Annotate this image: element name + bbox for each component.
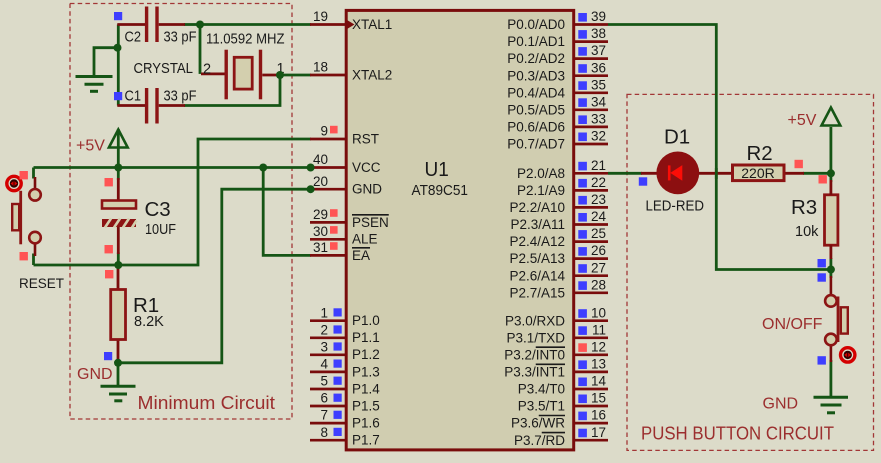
svg-text:P1.0: P1.0	[352, 313, 380, 328]
pin 39 (P0.0/AD0) right side	[507, 9, 608, 32]
+5V power symbol (left, reset circuit)	[109, 130, 128, 148]
svg-text:14: 14	[591, 374, 607, 389]
junction: R2 / R3 / +5V	[827, 169, 835, 177]
svg-text:24: 24	[591, 209, 607, 224]
wire +5V rail down to C3 top lead	[117, 168, 120, 181]
svg-text:GND: GND	[763, 396, 799, 413]
svg-text:P2.1/A9: P2.1/A9	[517, 183, 565, 198]
svg-text:P3.5/T1: P3.5/T1	[518, 399, 565, 414]
svg-text:U1: U1	[425, 158, 449, 181]
svg-text:33 pF: 33 pF	[164, 89, 197, 105]
junction: +5V rail / C3	[114, 164, 122, 172]
op-amp U1 AT89C51 microcontroller body	[346, 10, 574, 450]
svg-text:P1.4: P1.4	[352, 381, 380, 396]
svg-text:25: 25	[591, 226, 606, 241]
svg-text:P3.6/WR: P3.6/WR	[511, 416, 565, 431]
svg-text:P2.7/A15: P2.7/A15	[509, 285, 565, 300]
svg-text:GND: GND	[77, 366, 113, 383]
pin 22 (P2.1/A9) right side	[517, 175, 608, 198]
svg-text:GND: GND	[352, 182, 382, 197]
resistor R2 220R	[733, 142, 805, 181]
logic state marker R1 bottom	[104, 352, 112, 360]
pin 10 (P3.0/RXD) right side	[505, 305, 608, 328]
svg-text:9: 9	[320, 124, 328, 139]
capacitor C2 33pF	[117, 7, 196, 46]
svg-text:19: 19	[313, 9, 328, 24]
svg-text:40: 40	[313, 152, 328, 167]
svg-text:13: 13	[591, 357, 606, 372]
logic state markers near push button node	[818, 259, 826, 267]
ground symbol (push button circuit) with GND label	[814, 397, 849, 413]
svg-text:P2.6/A14: P2.6/A14	[509, 268, 565, 283]
pin 32 (P0.7/AD7) right side	[507, 129, 608, 152]
svg-text:15: 15	[591, 391, 606, 406]
svg-text:P2.2/A10: P2.2/A10	[509, 200, 565, 215]
svg-text:18: 18	[313, 60, 328, 75]
junction: C2 / crystal / XTAL1	[196, 21, 204, 29]
svg-text:27: 27	[591, 260, 606, 275]
junction at GND pin 20	[307, 185, 315, 193]
svg-text:P1.3: P1.3	[352, 364, 380, 379]
wire C3 bottom lead to reset rail	[117, 253, 120, 266]
wire +5V symbol stem (right)	[830, 127, 833, 173]
pin 11 (P3.1/TXD) right side	[506, 322, 608, 345]
wire XTAL1 net vertical to crystal pin 2	[199, 25, 202, 74]
pin 17 (P3.7/RD) right side	[514, 425, 608, 448]
wire XTAL2 net: crystal pin 1 to pin 18	[280, 74, 311, 77]
svg-text:P0.5/AD5: P0.5/AD5	[507, 102, 565, 117]
wire XTAL1 net: C2/crystal junction to pin 19	[200, 23, 311, 26]
wire crossing: pin39 vertical over LED lead	[715, 168, 718, 179]
svg-text:R3: R3	[791, 196, 817, 219]
logic state markers near C3	[105, 178, 113, 186]
pin 35 (P0.4/AD4) right side	[507, 77, 608, 100]
svg-text:30: 30	[313, 224, 328, 239]
pin 26 (P2.5/A13) right side	[509, 243, 608, 266]
pin 2 (P1.1) left side	[310, 322, 380, 345]
svg-text:34: 34	[591, 94, 607, 109]
svg-text:26: 26	[591, 243, 606, 258]
svg-text:ON/OFF: ON/OFF	[762, 316, 823, 333]
capacitor C1 33pF	[117, 88, 196, 124]
pin 16 (P3.6/WR) right side	[511, 408, 608, 431]
RESET button actuator marker	[7, 176, 21, 190]
junction: VCC rail / EA branch	[259, 164, 267, 172]
svg-text:LED-RED: LED-RED	[646, 199, 705, 215]
svg-text:20: 20	[313, 174, 328, 189]
pin 25 (P2.4/A12) right side	[509, 226, 608, 249]
wire vertical joining C2 and C1 left plates	[117, 25, 120, 106]
svg-text:23: 23	[591, 192, 606, 207]
svg-text:P3.4/T0: P3.4/T0	[518, 382, 565, 397]
+5V power symbol (right, push button circuit)	[822, 108, 841, 126]
pin 21 (P2.0/A8) right side	[517, 158, 608, 181]
junction at VCC pin 40	[307, 164, 315, 172]
ground symbol (crystal capacitors)	[76, 77, 113, 92]
pin 3 (P1.2) left side	[310, 339, 380, 362]
svg-text:P0.3/AD3: P0.3/AD3	[507, 68, 565, 83]
svg-text:11: 11	[592, 322, 606, 337]
wire push-button node to ON/OFF top lead	[830, 270, 833, 279]
pin 37 (P0.2/AD2) right side	[507, 43, 608, 66]
svg-text:P1.6: P1.6	[352, 416, 380, 431]
logic state markers C2/C1 left plates	[114, 12, 122, 20]
svg-text:P2.0/A8: P2.0/A8	[517, 166, 565, 181]
wire R2 right lead to +5V node	[803, 172, 831, 175]
svg-text:12: 12	[591, 339, 606, 354]
pin 6 (P1.5) left side	[310, 391, 380, 414]
svg-text:P3.2/INT0: P3.2/INT0	[504, 347, 565, 362]
svg-text:ALE: ALE	[352, 232, 378, 247]
svg-text:XTAL1: XTAL1	[352, 17, 392, 32]
svg-text:XTAL2: XTAL2	[352, 67, 392, 82]
pin 33 (P0.6/AD6) right side	[507, 112, 608, 135]
svg-text:37: 37	[591, 43, 606, 58]
push button ON/OFF	[762, 276, 848, 362]
push button RESET	[12, 177, 64, 291]
svg-text:R2: R2	[747, 142, 773, 165]
svg-text:220R: 220R	[741, 165, 774, 181]
svg-text:38: 38	[591, 26, 606, 41]
resistor R3 10k	[791, 180, 838, 259]
junction: reset node (C3/R1/RST)	[114, 261, 122, 269]
wire R1 bottom to ground symbol	[117, 363, 120, 385]
wire P2.0 pin 21 to LED D1 cathode	[608, 172, 642, 175]
Minimum Circuit dashed boundary box	[70, 4, 292, 420]
pin 31 (EA) left side	[310, 240, 370, 263]
svg-text:2: 2	[320, 322, 328, 337]
wire ground tap from capacitor rail	[94, 48, 118, 75]
pin 20 (GND) left side	[310, 174, 382, 197]
pin 28 (P2.7/A15) right side	[509, 277, 608, 300]
capacitor C3 10UF electrolytic	[102, 178, 176, 254]
svg-text:33: 33	[591, 112, 606, 127]
resistor R1 8.2K	[111, 265, 164, 362]
svg-text:8.2K: 8.2K	[134, 314, 164, 330]
svg-text:22: 22	[591, 175, 606, 190]
pin 29 (PSEN) left side	[310, 207, 389, 230]
wire XTAL2 net down to C1 right plate	[184, 75, 280, 106]
svg-text:39: 39	[591, 9, 606, 24]
pin 14 (P3.4/T0) right side	[518, 374, 608, 397]
logic state marker LED cathode	[639, 177, 647, 185]
svg-text:P0.2/AD2: P0.2/AD2	[507, 51, 565, 66]
logic state markers near R2 right	[795, 160, 803, 168]
svg-text:28: 28	[591, 277, 606, 292]
svg-text:31: 31	[313, 240, 328, 255]
logic state markers RESET button	[20, 171, 28, 179]
svg-text:2: 2	[203, 62, 211, 78]
svg-text:P0.1/AD1: P0.1/AD1	[507, 34, 565, 49]
pin 8 (P1.7) left side	[310, 425, 380, 448]
ON/OFF button actuator marker	[841, 348, 855, 362]
svg-text:P1.5: P1.5	[352, 398, 380, 413]
svg-text:RST: RST	[352, 131, 379, 146]
pin 18 (XTAL2) left side	[310, 60, 392, 83]
svg-text:P2.3/A11: P2.3/A11	[510, 217, 565, 232]
svg-text:PSEN: PSEN	[352, 215, 389, 230]
svg-text:29: 29	[313, 207, 328, 222]
pin 9 (RST) left side	[310, 124, 379, 147]
svg-text:P1.7: P1.7	[352, 433, 380, 448]
svg-text:P0.7/AD7: P0.7/AD7	[507, 137, 565, 152]
pin 1 (P1.0) left side	[310, 305, 380, 328]
wire GND net: pin 20 to R1 bottom	[118, 189, 311, 363]
svg-text:3: 3	[320, 339, 328, 354]
svg-text:1: 1	[320, 305, 328, 320]
wire R3 bottom to push-button node	[830, 258, 833, 270]
pin 27 (P2.6/A14) right side	[509, 260, 608, 283]
svg-text:32: 32	[591, 129, 606, 144]
wire RST net: pin 9 down and left to reset node rail	[34, 139, 312, 265]
PUSH BUTTON CIRCUIT dashed boundary box	[627, 94, 874, 450]
pin 23 (P2.2/A10) right side	[509, 192, 608, 215]
pin 12 (P3.2/INT0) right side	[504, 339, 608, 362]
pin 40 (VCC) left side	[310, 152, 381, 175]
svg-text:P0.6/AD6: P0.6/AD6	[507, 120, 565, 135]
svg-text:10: 10	[591, 305, 606, 320]
LED D1 LED-RED	[641, 126, 732, 215]
svg-text:5: 5	[320, 374, 328, 389]
pin 38 (P0.1/AD1) right side	[507, 26, 608, 49]
pin 30 (ALE) left side	[310, 224, 378, 247]
junction: R3 / pin39 wire / button	[827, 266, 835, 274]
svg-text:35: 35	[591, 77, 606, 92]
pin 5 (P1.4) left side	[310, 374, 380, 397]
svg-text:6: 6	[320, 391, 328, 406]
logic state marker ON/OFF bottom	[818, 356, 826, 364]
svg-text:36: 36	[591, 60, 606, 75]
wire EA tie-high from VCC rail to pin 31	[263, 168, 311, 256]
pin 24 (P2.3/A11) right side	[510, 209, 608, 232]
svg-text:PUSH BUTTON CIRCUIT: PUSH BUTTON CIRCUIT	[641, 424, 834, 444]
svg-text:P1.1: P1.1	[352, 330, 380, 345]
svg-text:4: 4	[320, 357, 328, 372]
svg-text:C2: C2	[125, 30, 142, 46]
wire +5V symbol stem (left)	[117, 129, 120, 168]
wire +5V rail down to RESET button top	[32, 168, 35, 179]
XTAL1 input arrow marker	[347, 20, 355, 29]
svg-text:EA: EA	[352, 248, 370, 263]
svg-text:+5V: +5V	[76, 138, 105, 155]
svg-text:P2.5/A13: P2.5/A13	[509, 251, 565, 266]
wire +5V node down to R3 top	[830, 173, 833, 182]
svg-text:21: 21	[591, 158, 606, 173]
svg-text:33 pF: 33 pF	[164, 30, 197, 46]
svg-text:P0.0/AD0: P0.0/AD0	[507, 17, 565, 32]
wire ON/OFF bottom to ground symbol	[830, 360, 833, 397]
svg-text:P3.1/TXD: P3.1/TXD	[506, 330, 565, 345]
svg-text:AT89C51: AT89C51	[412, 182, 469, 199]
svg-text:VCC: VCC	[352, 160, 381, 175]
pin 4 (P1.3) left side	[310, 357, 380, 380]
svg-text:C1: C1	[125, 89, 142, 105]
pin 13 (P3.3/INT1) right side	[504, 357, 608, 380]
svg-text:P0.4/AD4: P0.4/AD4	[507, 85, 565, 100]
wire +5V rail to VCC pin 40	[34, 166, 312, 169]
svg-text:D1: D1	[664, 126, 690, 149]
svg-text:P3.7/RD: P3.7/RD	[514, 433, 565, 448]
svg-text:CRYSTAL: CRYSTAL	[134, 61, 194, 77]
svg-text:P1.2: P1.2	[352, 347, 380, 362]
pin 34 (P0.5/AD5) right side	[507, 94, 608, 117]
svg-text:8: 8	[320, 425, 328, 440]
svg-text:10k: 10k	[795, 224, 819, 240]
wire P0.0 pin 39 net to push-button node	[608, 25, 831, 270]
crystal X1 11.0592 MHZ	[134, 32, 285, 100]
svg-text:RESET: RESET	[19, 276, 64, 291]
ground symbol (below R1) with GND label	[101, 386, 136, 401]
svg-text:10UF: 10UF	[145, 222, 176, 238]
wire RESET button bottom to reset rail	[32, 254, 35, 266]
svg-text:7: 7	[320, 408, 328, 423]
svg-text:17: 17	[591, 425, 606, 440]
svg-text:C3: C3	[145, 198, 171, 221]
svg-text:11.0592 MHZ: 11.0592 MHZ	[206, 32, 285, 48]
pin 36 (P0.3/AD3) right side	[507, 60, 608, 83]
svg-text:P3.0/RXD: P3.0/RXD	[505, 313, 565, 328]
pin 7 (P1.6) left side	[310, 408, 380, 431]
junction: R1 bottom / GND wire	[114, 359, 122, 367]
pin 15 (P3.5/T1) right side	[518, 391, 608, 414]
wire C2 right plate to junction	[184, 23, 200, 26]
svg-text:P2.4/A12: P2.4/A12	[509, 234, 565, 249]
svg-text:P3.3/INT1: P3.3/INT1	[504, 365, 565, 380]
svg-text:Minimum Circuit: Minimum Circuit	[138, 393, 276, 413]
junction: capacitor rail ground tap	[114, 44, 122, 52]
svg-text:16: 16	[591, 408, 606, 423]
svg-text:+5V: +5V	[788, 112, 817, 129]
pin 19 (XTAL1) left side	[310, 9, 392, 32]
junction: crystal pin1 / C1 / XTAL2	[276, 71, 284, 79]
